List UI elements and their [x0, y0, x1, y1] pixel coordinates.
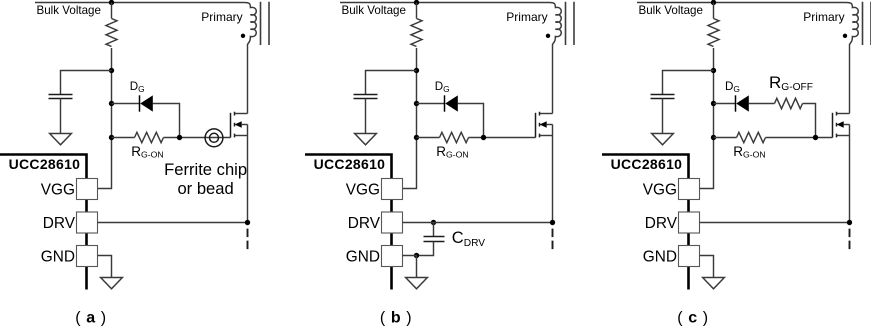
svg-text:DG: DG	[435, 80, 450, 94]
wire: rail down to dropper resistor (c)	[713, 3, 715, 19]
node: ground junction (b)	[414, 253, 419, 258]
pin box: GND (c)	[679, 246, 700, 267]
wire: DRV line down to C DRV (b)	[433, 223, 435, 237]
wire: DRV pin to MOSFET source (c)	[700, 222, 850, 224]
wire: C DRV to ground junction (b)	[417, 242, 434, 256]
ground: VGG capacitor ground (a)	[50, 134, 72, 145]
IC U1: UCC28610 outline (a)	[0, 155, 87, 290]
node: diode branch junction (b)	[414, 101, 419, 106]
transistor: source stub (c)	[837, 135, 850, 137]
ground: GND pin ground (c)	[703, 278, 725, 289]
svg-text:DRV: DRV	[43, 215, 76, 232]
wire: DG anode down to gate node (a)	[153, 104, 180, 138]
svg-text:Bulk Voltage: Bulk Voltage	[37, 4, 101, 17]
node: DRV / source junction (c)	[847, 220, 852, 225]
node: bulk rail / dropper resistor junction (c)	[711, 0, 716, 5]
svg-text:VGG: VGG	[643, 182, 677, 199]
inductor: primary winding (c)	[847, 3, 859, 45]
wire: DG anode to R G-OFF (c)	[749, 103, 775, 105]
pin box: VGG (b)	[382, 179, 403, 200]
node: R G-ON branch junction (a)	[109, 135, 114, 140]
svg-text:UCC28610: UCC28610	[314, 156, 386, 172]
svg-text:Ferrite chip: Ferrite chip	[164, 160, 247, 179]
transistor: body arrow (b)	[540, 121, 547, 128]
pin box: DRV (a)	[77, 212, 98, 233]
node: bulk rail / dropper resistor junction (b)	[414, 0, 419, 5]
svg-text:Bulk Voltage: Bulk Voltage	[342, 4, 406, 17]
transformer polarity dot (b)	[546, 34, 550, 38]
wire: source down to DRV line (a)	[247, 125, 249, 223]
wire: source down to DRV line (b)	[552, 125, 554, 223]
svg-text:RG-OFF: RG-OFF	[769, 73, 813, 93]
wire: capacitor to ground (c)	[662, 99, 664, 134]
ferrite bead inner ring (a)	[210, 133, 219, 142]
node: cap branch junction (b)	[414, 68, 419, 73]
transistor: source stub (a)	[235, 135, 248, 137]
svg-text:DG: DG	[725, 80, 740, 94]
svg-text:CDRV: CDRV	[452, 229, 485, 249]
transformer polarity dot (a)	[241, 34, 245, 38]
transistor: body stub (c)	[843, 124, 849, 126]
node: R G-ON branch junction (c)	[711, 135, 716, 140]
wire: bulk voltage top rail (a)	[35, 2, 245, 4]
node: cap branch junction (c)	[711, 68, 716, 73]
wire: DG anode down to gate node (b)	[458, 104, 484, 138]
transistor: drain stub (b)	[540, 113, 553, 115]
ferrite bead outer ring (a)	[205, 129, 223, 147]
transistor: drain stub (a)	[235, 113, 248, 115]
node: cap branch junction (a)	[109, 68, 114, 73]
ground: GND pin ground (a)	[101, 278, 123, 289]
wire: GND pin to ground (a)	[98, 256, 112, 278]
wire: to VGG capacitor (b)	[366, 71, 417, 95]
wire: DRV pin to MOSFET source (b)	[403, 222, 553, 224]
transistor: body stub (a)	[241, 124, 247, 126]
transformer core lines (b)	[566, 2, 575, 45]
transformer core lines (a)	[261, 2, 270, 45]
diode DG body (a)	[140, 95, 153, 111]
wire: junction to DG cathode (b)	[417, 103, 445, 105]
wire: drain up to primary winding (b)	[552, 44, 554, 114]
transistor: body arrow (a)	[235, 121, 242, 128]
wire: main vertical VGG feed (b)	[403, 48, 417, 189]
transformer polarity dot (c)	[843, 34, 847, 38]
wire: capacitor to ground (a)	[60, 99, 62, 134]
svg-text:RG-ON: RG-ON	[733, 144, 765, 160]
svg-text:VGG: VGG	[346, 182, 380, 199]
wire: R G-ON to MOSFET gate (c)	[766, 137, 833, 139]
node: DRV / source junction (a)	[245, 220, 250, 225]
ground: VGG capacitor ground (c)	[652, 134, 674, 145]
diode DG cathode bar (a)	[139, 95, 141, 111]
node: gate drive node (c)	[813, 135, 818, 140]
svg-text:Primary: Primary	[201, 10, 242, 24]
transistor: body stub (b)	[546, 124, 552, 126]
wire: capacitor to ground (b)	[365, 99, 367, 134]
pin box: DRV (b)	[382, 212, 403, 233]
node: R G-ON branch junction (b)	[414, 135, 419, 140]
wire: R G-ON to MOSFET gate (a)	[164, 137, 231, 139]
pin box: DRV (c)	[679, 212, 700, 233]
resistor R G-ON (c)	[737, 132, 766, 142]
wire: main vertical VGG feed (a)	[98, 48, 112, 189]
capacitor: VGG bypass (c)	[651, 95, 675, 99]
diode DG body (c)	[736, 95, 749, 111]
wire: rail down to dropper resistor (b)	[416, 3, 418, 19]
capacitor: VGG bypass (a)	[49, 95, 73, 99]
node: diode branch junction (a)	[109, 101, 114, 106]
node: DRV / source junction (b)	[550, 220, 555, 225]
IC U1: UCC28610 outline (b)	[305, 155, 392, 290]
transistor: body arrow (c)	[837, 121, 844, 128]
node: diode branch junction (c)	[711, 101, 716, 106]
svg-text:VGG: VGG	[41, 182, 75, 199]
node: bulk rail / dropper resistor junction (a)	[109, 0, 114, 5]
node: C DRV junction on DRV line (b)	[431, 220, 436, 225]
wire: junction to R G-ON (b)	[417, 137, 440, 139]
inductor: primary winding (b)	[550, 3, 562, 45]
resistor R G-ON (b)	[440, 132, 469, 142]
wire: junction to DG cathode (c)	[714, 103, 736, 105]
pin box: VGG (c)	[679, 179, 700, 200]
node: gate drive node (b)	[481, 135, 486, 140]
pin box: GND (a)	[77, 246, 98, 267]
transistor: primary MOSFET gate bar (a)	[230, 113, 232, 138]
wire: main vertical VGG feed (c)	[700, 48, 714, 189]
wire: source down to DRV line (c)	[849, 125, 851, 223]
resistor R G-OFF (c)	[775, 98, 803, 108]
svg-text:DRV: DRV	[348, 215, 381, 232]
wire: DRV pin to MOSFET source (a)	[98, 222, 248, 224]
resistor: bulk dropper (a)	[106, 19, 117, 47]
resistor: bulk dropper (c)	[708, 19, 719, 47]
ground: VGG capacitor ground (b)	[355, 134, 377, 145]
wire: drain up to primary winding (a)	[247, 44, 249, 114]
svg-text:RG-ON: RG-ON	[436, 144, 468, 160]
transformer core lines (c)	[863, 2, 871, 45]
wire: junction to DG cathode (a)	[112, 103, 140, 105]
ground: GND pin ground (b)	[406, 278, 428, 289]
wire: rail down to dropper resistor (a)	[111, 3, 113, 19]
transistor: channel ticks (b)	[539, 112, 541, 138]
wire: GND pin to ground (c)	[700, 256, 714, 278]
svg-text:or bead: or bead	[177, 179, 233, 198]
resistor: bulk dropper (b)	[411, 19, 422, 47]
resistor R G-ON (a)	[135, 132, 164, 142]
wire: GND pin to ground (b)	[403, 256, 417, 278]
transistor: drain stub (c)	[837, 113, 850, 115]
transistor: channel ticks (c)	[836, 112, 838, 138]
inductor: primary winding (a)	[245, 3, 257, 45]
wire: dashed continuation below source (c)	[849, 229, 851, 250]
wire: drain up to primary winding (c)	[849, 44, 851, 114]
wire: dashed continuation below source (b)	[552, 229, 554, 250]
diode DG body (b)	[445, 95, 458, 111]
svg-text:GND: GND	[643, 249, 677, 266]
svg-text:DRV: DRV	[645, 215, 678, 232]
transistor: primary MOSFET gate bar (b)	[535, 113, 537, 138]
svg-text:DG: DG	[130, 80, 145, 94]
capacitor C DRV (b)	[424, 237, 445, 242]
transistor: primary MOSFET gate bar (c)	[832, 113, 834, 138]
pin box: VGG (a)	[77, 179, 98, 200]
pin box: GND (b)	[382, 246, 403, 267]
capacitor: VGG bypass (b)	[354, 95, 378, 99]
wire: dashed continuation below source (a)	[247, 229, 249, 250]
svg-text:GND: GND	[41, 249, 75, 266]
svg-text:Bulk Voltage: Bulk Voltage	[639, 4, 703, 17]
wire: R G-OFF down to gate node (c)	[803, 104, 816, 138]
wire: junction to R G-ON (c)	[714, 137, 737, 139]
IC U1: UCC28610 outline (c)	[602, 155, 689, 290]
diode DG cathode bar (c)	[735, 95, 737, 111]
svg-text:( a ): ( a )	[75, 310, 106, 327]
diode DG cathode bar (b)	[444, 95, 446, 111]
svg-text:RG-ON: RG-ON	[131, 144, 163, 160]
transistor: channel ticks (a)	[234, 112, 236, 138]
svg-text:( b ): ( b )	[380, 310, 412, 327]
wire: to VGG capacitor (a)	[61, 71, 112, 95]
wire: bulk voltage top rail (c)	[637, 2, 847, 4]
wire: bulk voltage top rail (b)	[340, 2, 550, 4]
svg-text:Primary: Primary	[506, 10, 547, 24]
wire: R G-ON to MOSFET gate (b)	[469, 137, 536, 139]
transistor: source stub (b)	[540, 135, 553, 137]
wire: junction to R G-ON (a)	[112, 137, 135, 139]
node: gate drive node (a)	[177, 135, 182, 140]
svg-text:( c ): ( c )	[677, 310, 708, 327]
svg-text:GND: GND	[346, 249, 380, 266]
svg-text:UCC28610: UCC28610	[9, 156, 81, 172]
svg-text:Primary: Primary	[803, 10, 844, 24]
svg-text:UCC28610: UCC28610	[611, 156, 683, 172]
wire: to VGG capacitor (c)	[663, 71, 714, 95]
